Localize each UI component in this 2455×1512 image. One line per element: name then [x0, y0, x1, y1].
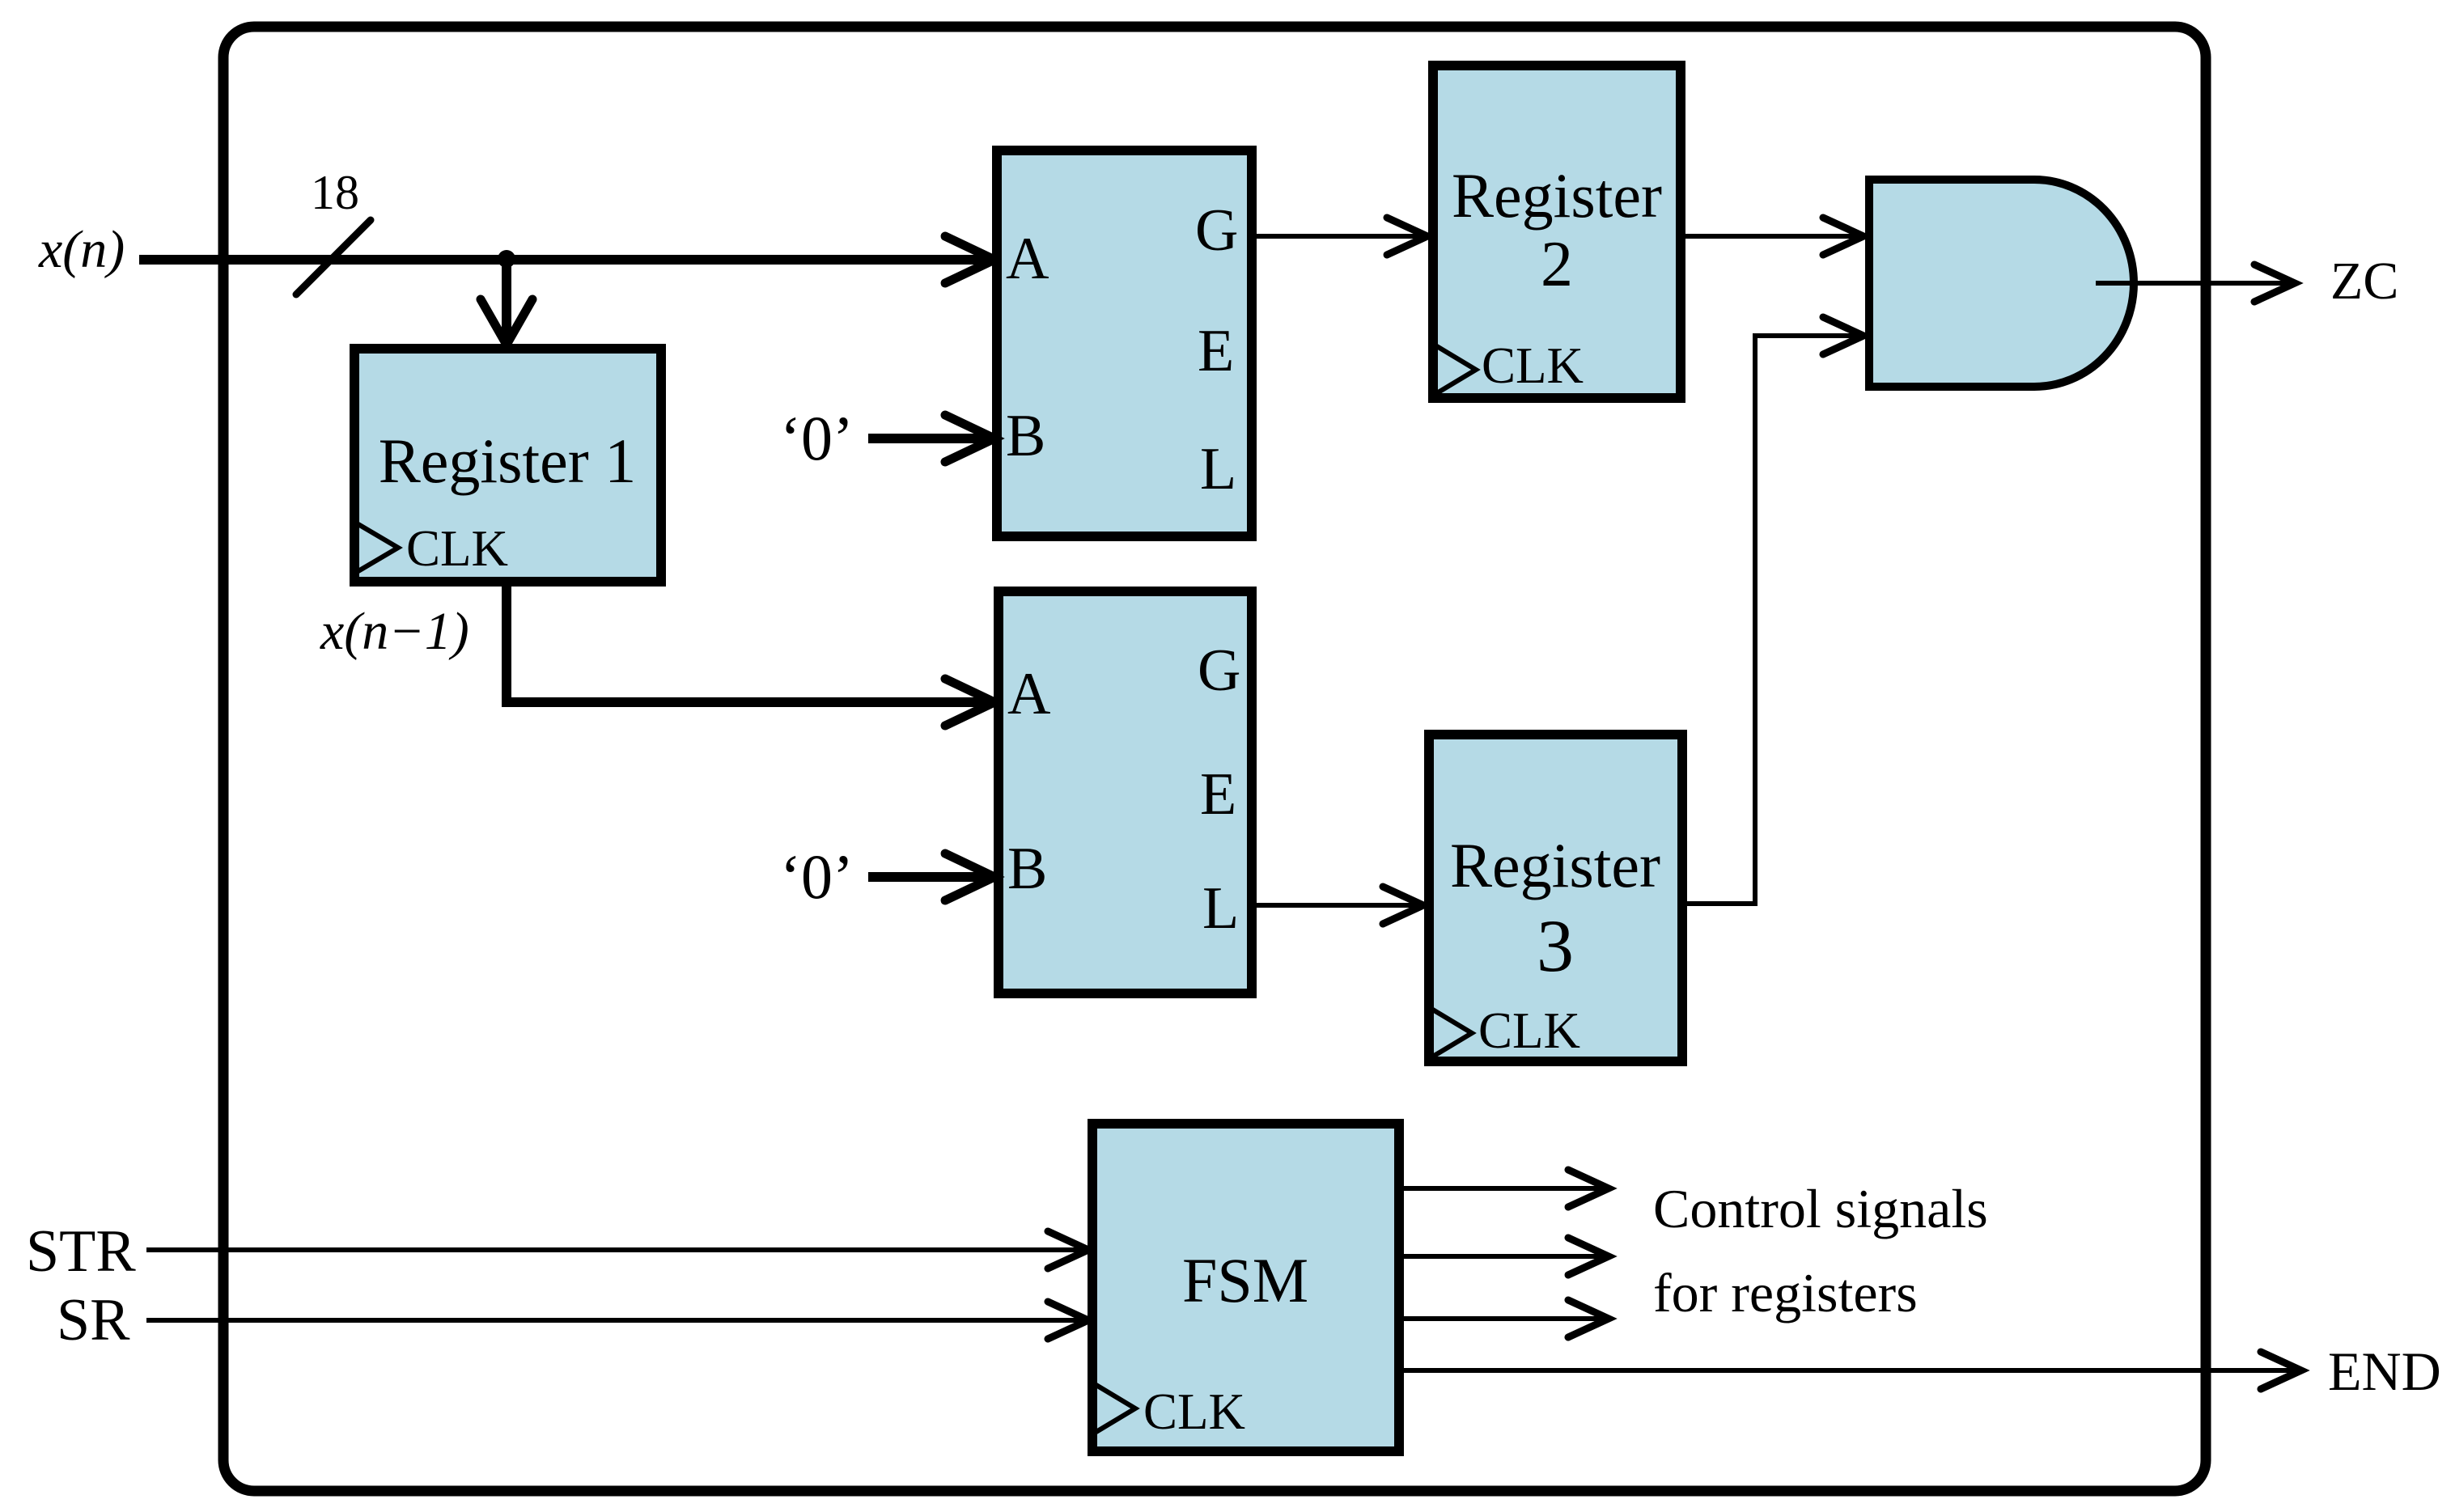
svg-text:SR: SR [57, 1287, 130, 1353]
wire FSM control output 3 [1399, 1316, 1605, 1321]
wire SR to FSM [146, 1318, 1085, 1323]
svg-text:2: 2 [1541, 229, 1573, 300]
svg-text:CLK: CLK [406, 520, 508, 577]
AND gate U3 [1869, 180, 2134, 387]
svg-text:x(n): x(n) [38, 220, 125, 279]
register R1 [354, 349, 661, 582]
svg-text:CLK: CLK [1482, 337, 1584, 394]
svg-text:3: 3 [1537, 904, 1574, 987]
svg-text:END: END [2328, 1340, 2441, 1402]
module boundary [223, 27, 2206, 1491]
svg-text:G: G [1195, 197, 1238, 264]
junction node [498, 250, 515, 268]
svg-text:L: L [1202, 875, 1239, 942]
svg-text:for registers: for registers [1653, 1262, 1918, 1324]
comparator U1 [997, 150, 1252, 536]
svg-text:‘0’: ‘0’ [780, 841, 854, 912]
svg-text:CLK: CLK [1143, 1383, 1245, 1440]
svg-text:18: 18 [311, 166, 359, 219]
register R2 [1433, 66, 1681, 398]
svg-text:Register: Register [1452, 160, 1662, 231]
bus width slash [296, 220, 371, 294]
svg-text:Register 1: Register 1 [379, 426, 636, 496]
svg-text:CLK: CLK [1478, 1002, 1580, 1059]
svg-text:‘0’: ‘0’ [780, 403, 854, 473]
svg-text:E: E [1198, 318, 1234, 384]
wire junction to Register 1 [502, 260, 511, 340]
svg-text:E: E [1200, 761, 1236, 828]
svg-text:FSM: FSM [1182, 1245, 1308, 1315]
svg-text:L: L [1200, 436, 1236, 502]
svg-text:Register: Register [1450, 830, 1660, 900]
wire FSM control output 1 [1399, 1186, 1605, 1191]
wire comparator U1 G output to Register 2 [1252, 234, 1424, 239]
svg-text:G: G [1198, 637, 1240, 704]
wire comparator U2 L output to Register 3 [1252, 903, 1420, 908]
wire x(n) input bus [139, 255, 989, 265]
wire FSM END output [1399, 1368, 2298, 1373]
comparator U2 [999, 591, 1252, 993]
wire FSM control output 2 [1399, 1254, 1605, 1259]
svg-text:A: A [1007, 661, 1050, 727]
svg-text:ZC: ZC [2330, 252, 2398, 311]
wire AND gate output ZC [2096, 281, 2292, 286]
wire '0' to comparator U1 input B [868, 434, 989, 443]
svg-text:A: A [1006, 226, 1049, 292]
svg-text:Control signals: Control signals [1653, 1178, 1988, 1239]
wire STR to FSM [146, 1247, 1085, 1252]
svg-text:x(n−1): x(n−1) [320, 602, 469, 661]
wire Register 3 to AND gate input 2 [1682, 336, 1860, 904]
svg-text:B: B [1007, 836, 1047, 902]
register R3 [1429, 735, 1682, 1061]
svg-text:B: B [1006, 403, 1045, 469]
wire Register 2 to AND gate input 1 [1681, 234, 1860, 239]
svg-text:STR: STR [26, 1218, 136, 1285]
wire '0' to comparator U2 input B [868, 872, 989, 882]
wire Register 1 output x(n-1) to comparator U2 input A [507, 582, 989, 702]
FSM U4 [1092, 1124, 1399, 1451]
